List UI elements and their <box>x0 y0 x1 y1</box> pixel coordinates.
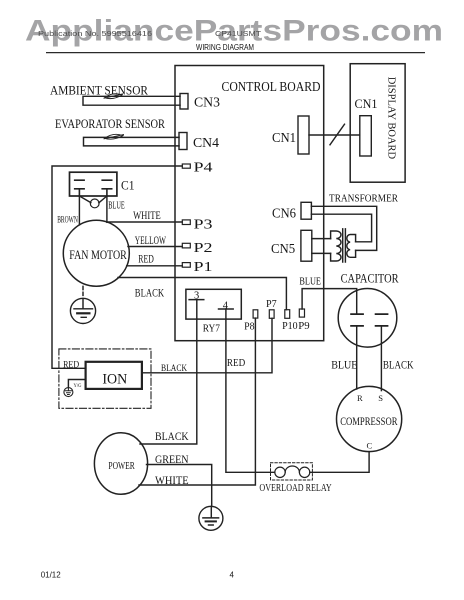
wire green power to ground <box>147 465 212 507</box>
wire P8 down to relay junction <box>254 318 256 472</box>
wire black motor to P10 <box>118 278 286 310</box>
svg-text:P1: P1 <box>194 259 213 274</box>
wire P9 to capacitor (blue) <box>302 289 357 315</box>
display board outline <box>350 64 405 183</box>
relay RY7 box <box>186 289 241 319</box>
pin P8 <box>253 310 258 318</box>
wire CN1 to display board <box>309 134 360 136</box>
svg-text:S: S <box>378 393 383 403</box>
svg-text:WIRING DIAGRAM: WIRING DIAGRAM <box>196 43 254 52</box>
svg-text:4: 4 <box>223 301 229 312</box>
pin P1 <box>182 263 190 268</box>
svg-text:C1: C1 <box>121 178 135 193</box>
power circle <box>94 433 147 495</box>
ION generator box <box>86 362 142 389</box>
control board U-board outline <box>175 66 324 341</box>
capacitor right plates <box>376 314 388 326</box>
compressor circle <box>337 386 402 451</box>
svg-text:GREEN: GREEN <box>155 454 189 466</box>
wire white motor to P3 <box>108 221 183 223</box>
svg-text:BLUE: BLUE <box>108 201 124 212</box>
RY7 pin 4 mark <box>219 308 234 310</box>
svg-text:Y/G: Y/G <box>74 384 82 389</box>
capacitor left plates <box>351 314 363 326</box>
power ground symbol <box>203 507 219 526</box>
svg-text:CONTROL BOARD: CONTROL BOARD <box>222 80 321 95</box>
svg-text:P10: P10 <box>282 321 298 332</box>
wire brown C1 to motor <box>78 196 80 225</box>
svg-text:BROWN: BROWN <box>57 215 78 225</box>
svg-text:C: C <box>367 441 373 451</box>
motor ground dashed lead <box>82 286 84 297</box>
svg-text:AMBIENT SENSOR: AMBIENT SENSOR <box>50 84 149 98</box>
svg-text:P7: P7 <box>266 299 277 310</box>
svg-text:BLACK: BLACK <box>135 288 165 300</box>
svg-text:P3: P3 <box>194 217 213 232</box>
wire RY7 pin3 to power (black) <box>140 300 197 444</box>
evaporator sensor twist element <box>104 134 124 139</box>
wire black capacitor to compressor S <box>380 326 382 391</box>
ION ground symbol <box>65 388 71 395</box>
thermal protector V link <box>79 196 107 203</box>
svg-text:P4: P4 <box>194 160 213 175</box>
pin P7 <box>269 310 274 319</box>
cable slash mark <box>330 124 345 145</box>
ION ground circle <box>64 388 73 397</box>
pin P2 <box>182 243 190 248</box>
wire yellow motor to P2 <box>128 246 182 248</box>
C1 right section plates <box>102 180 112 196</box>
C1 left section plates <box>75 180 84 196</box>
motor ground circle <box>70 298 95 323</box>
svg-text:TRANSFORMER: TRANSFORMER <box>329 193 399 205</box>
RY7 pin 3 mark <box>189 299 204 301</box>
pin P10 <box>285 310 290 319</box>
wire blue capacitor to compressor R <box>356 326 358 389</box>
svg-text:FAN MOTOR: FAN MOTOR <box>69 247 127 262</box>
svg-text:BLACK: BLACK <box>161 364 187 374</box>
ION ground wire <box>68 380 85 388</box>
overload relay left contact <box>275 467 285 477</box>
svg-text:ION: ION <box>102 372 127 388</box>
wire CN6 inner loop to transformer secondary <box>311 214 371 242</box>
wire red motor to P1 <box>127 265 183 267</box>
fan motor circle <box>63 220 129 286</box>
svg-text:R: R <box>357 393 363 403</box>
svg-text:CN1: CN1 <box>355 97 378 111</box>
transformer core <box>343 229 346 262</box>
svg-text:P8: P8 <box>244 322 254 333</box>
overload relay dashed box <box>271 463 313 480</box>
svg-text:RED: RED <box>138 253 154 265</box>
connector CN6 <box>301 202 311 219</box>
svg-text:CN6: CN6 <box>272 205 296 220</box>
pin P9 <box>299 309 304 317</box>
evaporator sensor probe <box>84 137 180 146</box>
transformer primary winding <box>331 231 341 261</box>
svg-text:RED: RED <box>227 357 245 369</box>
svg-text:CP41USMT: CP41USMT <box>215 31 262 38</box>
svg-text:P2: P2 <box>194 240 213 255</box>
header rule <box>46 52 425 54</box>
ambient sensor twist element <box>104 94 123 99</box>
svg-text:BLACK: BLACK <box>155 431 189 443</box>
connector CN3 <box>180 94 188 110</box>
svg-text:DISPLAY BOARD: DISPLAY BOARD <box>386 77 397 160</box>
wire blue C1 to motor <box>106 196 108 222</box>
svg-text:OVERLOAD RELAY: OVERLOAD RELAY <box>259 483 332 494</box>
capacitor circle <box>338 289 397 348</box>
wire CN5 lower to primary <box>312 252 331 254</box>
svg-text:YELLOW: YELLOW <box>135 235 166 247</box>
svg-text:CN4: CN4 <box>193 135 219 150</box>
transformer secondary winding <box>347 235 356 258</box>
svg-text:WHITE: WHITE <box>133 210 161 222</box>
pin P4 <box>182 164 190 168</box>
svg-text:RED: RED <box>63 360 79 370</box>
wire white power to relay junction <box>139 472 255 485</box>
svg-text:BLUE: BLUE <box>299 276 321 288</box>
connector CN5 <box>301 230 312 261</box>
wire CN6 outer loop to transformer secondary <box>311 206 376 250</box>
svg-text:CN5: CN5 <box>271 241 295 256</box>
svg-text:POWER: POWER <box>108 460 135 472</box>
connector CN1 on control board <box>298 116 309 154</box>
svg-text:RY7: RY7 <box>203 324 220 335</box>
svg-text:4: 4 <box>230 571 235 580</box>
svg-text:CAPACITOR: CAPACITOR <box>341 272 400 286</box>
ambient sensor probe <box>83 96 180 105</box>
svg-text:COMPRESSOR: COMPRESSOR <box>340 416 398 428</box>
wire P7 to ION (black) <box>143 318 272 373</box>
wire compressor C to overload relay <box>310 452 369 473</box>
ION dashed enclosure <box>59 349 151 408</box>
wire CN5 upper to primary <box>312 238 331 240</box>
pin P3 <box>182 220 190 225</box>
svg-text:BLACK: BLACK <box>383 359 414 371</box>
svg-text:3: 3 <box>194 291 199 302</box>
svg-text:CN3: CN3 <box>194 95 220 110</box>
svg-text:WHITE: WHITE <box>155 475 189 487</box>
capacitor C1 box <box>70 172 117 196</box>
connector CN1 on display board <box>360 116 372 156</box>
connector CN4 <box>179 133 187 150</box>
motor ground symbol <box>74 299 93 318</box>
svg-text:BLUE: BLUE <box>331 359 357 371</box>
power ground circle <box>199 506 223 530</box>
svg-text:Publication No. 5995516416: Publication No. 5995516416 <box>38 31 152 38</box>
svg-text:P9: P9 <box>298 321 309 332</box>
svg-text:CN1: CN1 <box>272 130 296 145</box>
thermal protector circle <box>90 199 99 208</box>
wire RY7 pin4 to overload relay (red) <box>226 309 275 472</box>
svg-text:01/12: 01/12 <box>41 571 62 580</box>
overload relay element arc <box>285 466 299 472</box>
overload relay right contact <box>299 467 309 477</box>
wire P4 to ION (red) <box>52 166 182 368</box>
svg-text:EVAPORATOR SENSOR: EVAPORATOR SENSOR <box>55 117 166 131</box>
